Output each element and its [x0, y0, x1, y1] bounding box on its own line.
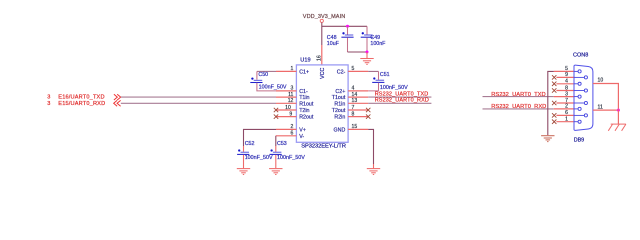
node E16/UART0_TXD off-page connector	[47, 94, 120, 101]
wire ground stem under U19	[373, 164, 375, 168]
wire shield to chassis ground	[617, 109, 619, 124]
wire C51 top stub	[378, 71, 380, 79]
svg-text:C50: C50	[258, 72, 268, 78]
svg-text:6: 6	[565, 110, 568, 116]
DB9 pin 8 hole	[584, 89, 587, 92]
svg-text:T1out: T1out	[332, 95, 346, 101]
svg-text:T1in: T1in	[299, 95, 309, 101]
wire pin 16 stub	[321, 45, 323, 65]
wire DB9 pin 4 stub no-connect	[556, 83, 574, 85]
wire RS232_UART0_RXD at U19	[368, 102, 431, 104]
wire bottom rail C48 to C49	[348, 51, 368, 53]
wire C53 top stub	[275, 146, 277, 152]
DB9 pin 7 hole	[584, 101, 587, 104]
junction dot at C49 bottom / ground drop	[366, 51, 369, 54]
wire pin 14 stub (T1out)	[348, 96, 368, 98]
svg-text:10uF: 10uF	[327, 41, 340, 47]
no-connect X DB9 pin 7	[552, 101, 556, 105]
svg-text:4: 4	[565, 79, 568, 85]
node VDD_3V3_MAIN power symbol	[303, 14, 345, 23]
svg-text:C2-: C2-	[337, 69, 346, 75]
ground symbol DB9 pin 5	[541, 136, 554, 142]
svg-text:SP3232EEY-L/TR: SP3232EEY-L/TR	[301, 144, 346, 150]
svg-text:T2in: T2in	[299, 108, 309, 114]
wire DB9 pin 9 stub no-connect	[556, 76, 574, 78]
wire ground stem under C52	[243, 155, 245, 168]
wire pin 1 stub (C1+)	[276, 70, 296, 72]
svg-text:R2in: R2in	[334, 115, 345, 121]
wire VDD vertical from power symbol to VCC pin 16	[321, 23, 323, 46]
svg-text:100nF_50V: 100nF_50V	[245, 155, 273, 161]
svg-text:V+: V+	[299, 127, 306, 133]
svg-text:R2out: R2out	[299, 115, 314, 121]
wire pin 8 stub (R2in) no-connect	[348, 116, 368, 118]
svg-text:100nF: 100nF	[370, 41, 386, 47]
wire C50 bottom stub to pin 3 row	[257, 83, 276, 91]
svg-text:C2+: C2+	[335, 89, 345, 95]
wire DB9 pin 5 stub	[554, 70, 574, 72]
svg-text:VDD_3V3_MAIN: VDD_3V3_MAIN	[303, 14, 345, 20]
svg-text:R1in: R1in	[334, 101, 345, 107]
no-connect X pin 8	[366, 114, 370, 118]
no-connect X DB9 pin 8	[552, 88, 556, 92]
pin names U19 right column	[332, 69, 346, 133]
wire pin 13 stub (R1in)	[348, 102, 368, 104]
svg-text:C1+: C1+	[299, 69, 309, 75]
wire pin 7 stub (T2out) no-connect	[348, 109, 368, 111]
svg-text:C51: C51	[380, 72, 390, 78]
DB9 pin 5 hole	[578, 70, 581, 73]
wire pin 3 stub (C1-)	[276, 90, 296, 92]
chassis ground symbol	[608, 124, 626, 131]
svg-text:C1-: C1-	[299, 89, 308, 95]
ground symbol under C49	[360, 59, 373, 65]
wire DB9 pin 6 stub no-connect	[556, 114, 574, 116]
DB9 pin 1 hole	[578, 120, 581, 123]
svg-text:C53: C53	[277, 141, 287, 147]
junction dot at C48 top	[346, 25, 349, 28]
wire DB9 pin 10	[593, 84, 619, 110]
ground symbol under U19 GND	[367, 169, 380, 175]
wire E15/UART0_RXD to R1out	[121, 102, 276, 104]
no-connect X pin 7	[366, 108, 370, 112]
svg-text:3: 3	[47, 95, 50, 101]
wire pin 10 stub (T2in) no-connect	[276, 109, 296, 111]
wire C52 top stub	[243, 146, 245, 152]
svg-text:16: 16	[316, 55, 322, 61]
no-connect X DB9 pin 1	[552, 120, 556, 124]
wire DB9 pin 3 stub	[554, 96, 574, 98]
ground symbol under C53	[269, 169, 282, 175]
wire DB9 pin 2 stub	[554, 108, 574, 110]
wire pin 5 to C51	[368, 70, 378, 72]
no-connect X DB9 pin 9	[552, 75, 556, 79]
svg-text:DB9: DB9	[574, 138, 585, 144]
wire pin 5 stub (C2-)	[348, 70, 368, 72]
no-connect X pin 10	[274, 108, 278, 112]
wire RS232_UART0_TXD to DB9 pin 3	[483, 96, 554, 98]
svg-text:U19: U19	[300, 57, 310, 63]
wire V- to C53	[275, 136, 277, 146]
svg-text:2: 2	[565, 104, 568, 110]
svg-text:100nF_50V: 100nF_50V	[259, 84, 287, 90]
pin numbers U19 right	[352, 66, 358, 130]
wire pin 9 stub (R2out) no-connect	[276, 116, 296, 118]
svg-text:C52: C52	[245, 141, 255, 147]
svg-text:100nF_50V: 100nF_50V	[380, 85, 408, 91]
svg-text:10: 10	[598, 78, 604, 84]
DB9 pin 6 hole	[584, 114, 587, 117]
svg-text:CON8: CON8	[573, 52, 588, 58]
pin numbers U19 left	[285, 66, 293, 136]
no-connect X pin 9	[274, 114, 278, 118]
wire pin 6 stub (V-)	[276, 135, 297, 137]
capacitor C53	[270, 141, 306, 161]
wire DB9 pin 11	[593, 109, 619, 111]
DB9 pin 4 hole	[578, 82, 581, 85]
svg-text:3: 3	[565, 91, 568, 97]
wire C51 bottom stub to pin 4 row	[368, 83, 378, 91]
wire RS232_UART0_RXD to DB9 pin 2	[483, 108, 554, 110]
DB9 pin 3 hole	[578, 95, 581, 98]
wire top rail to C48/C49	[322, 25, 367, 27]
wire GND to ground	[368, 129, 373, 164]
wire DB9 pin 5 to ground	[548, 71, 554, 135]
pin names U19 left column	[299, 69, 314, 139]
DB9 pin 9 hole	[584, 76, 587, 79]
wire pin 4 stub (C2+)	[348, 90, 368, 92]
wire C49 top stub	[366, 26, 368, 34]
pin numbers DB9 left	[565, 66, 568, 122]
no-connect X DB9 pin 6	[552, 113, 556, 117]
svg-text:E16/UART0_TXD: E16/UART0_TXD	[58, 95, 104, 101]
no-connect X DB9 pin 4	[552, 82, 556, 86]
svg-text:T2out: T2out	[332, 108, 346, 114]
wire C48 top stub	[347, 26, 349, 34]
ground symbol under C52	[237, 169, 250, 175]
wire pin 12 stub (R1out)	[276, 102, 296, 104]
capacitor C48	[327, 32, 354, 47]
wire C48 bottom stub to bottom rail	[347, 38, 349, 52]
wire DB9 pin 1 stub no-connect	[556, 121, 574, 123]
wire E16/UART0_TXD to T1in	[121, 96, 276, 98]
wire pin 11 stub (T1in)	[276, 96, 296, 98]
wire DB9 pin 8 stub no-connect	[556, 90, 574, 92]
wire C50 top stub	[256, 71, 258, 79]
DB9 pin 2 hole	[578, 107, 581, 110]
wire DB9 pin 7 stub no-connect	[556, 102, 574, 104]
wire ground stem under C53	[275, 155, 277, 168]
wire pin 1 to C50	[257, 70, 276, 72]
svg-text:9: 9	[565, 72, 568, 78]
svg-text:R1out: R1out	[299, 101, 314, 107]
junction dot DB9 shield	[617, 109, 620, 112]
wire RS232_UART0_TXD at U19	[368, 96, 431, 98]
svg-text:100nF_50V: 100nF_50V	[277, 155, 305, 161]
wire pin 2 stub (V+)	[276, 128, 296, 130]
svg-text:V-: V-	[299, 134, 304, 140]
wire V+ to C52	[244, 129, 277, 146]
capacitor C49	[361, 32, 386, 47]
wire ground stem under C49	[366, 52, 368, 58]
svg-text:8: 8	[565, 85, 568, 91]
capacitor C50	[250, 72, 287, 90]
DB9 internal pin leads	[574, 71, 584, 121]
svg-text:VCC: VCC	[320, 68, 326, 79]
wire pin 15 stub (GND)	[348, 128, 368, 130]
node E15/UART0_RXD off-page connector	[47, 100, 120, 107]
IC U19 SP3232EEY-L/TR body	[296, 57, 348, 149]
svg-text:GND: GND	[334, 127, 346, 133]
svg-text:3: 3	[47, 101, 50, 107]
capacitor C51	[372, 72, 408, 91]
svg-text:1: 1	[565, 117, 568, 123]
svg-text:E15/UART0_RXD: E15/UART0_RXD	[58, 101, 105, 107]
capacitor C52	[237, 141, 273, 161]
wire C49 bottom stub	[366, 38, 368, 52]
connector CON8 DB9 body	[573, 52, 593, 143]
